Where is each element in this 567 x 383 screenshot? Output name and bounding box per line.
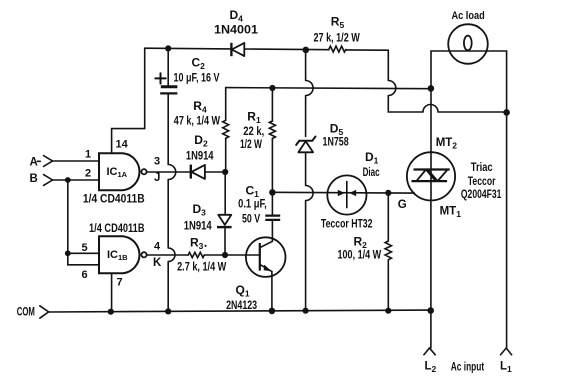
diode D4 bbox=[231, 43, 244, 56]
node A input arrow bbox=[44, 156, 53, 167]
label 0.1 uF, bbox=[238, 199, 267, 211]
label 1/4 CD4011B upper bbox=[83, 193, 145, 205]
svg-text:C1: C1 bbox=[246, 184, 260, 200]
label 27 k, 1/2 W bbox=[314, 32, 360, 44]
svg-text:5: 5 bbox=[82, 242, 88, 254]
label 47 k, 1/4 W bbox=[174, 116, 220, 128]
diode D3 bbox=[217, 215, 232, 227]
svg-text:J: J bbox=[154, 172, 160, 184]
resistor R5 bbox=[329, 46, 346, 52]
svg-text:IC1A: IC1A bbox=[107, 166, 128, 179]
svg-text:27 k, 1/2 W: 27 k, 1/2 W bbox=[314, 32, 360, 44]
wire input B to pin 2 bbox=[53, 179, 100, 181]
svg-text:4: 4 bbox=[154, 241, 161, 253]
label 100, 1/4 W bbox=[338, 249, 382, 261]
svg-text:100, 1/4 W: 100, 1/4 W bbox=[338, 249, 382, 261]
svg-text:MT1: MT1 bbox=[440, 205, 462, 219]
svg-text:2N4123: 2N4123 bbox=[226, 300, 257, 312]
label 2N4123 bbox=[226, 300, 257, 312]
wire lamp left lead down to triac MT2 bbox=[430, 51, 432, 200]
wire from R5 down and right to L1 line bbox=[388, 50, 506, 112]
label 10 uF, 16 V bbox=[174, 73, 220, 85]
label B bbox=[30, 173, 38, 185]
label pin 5 bbox=[82, 242, 88, 254]
svg-text:R1: R1 bbox=[247, 110, 261, 126]
svg-text:Ac input: Ac input bbox=[451, 361, 484, 373]
wire Q1 emitter drop bbox=[271, 272, 273, 311]
wire lamp horizontal lead bbox=[431, 50, 507, 52]
wire D3 leads bbox=[224, 172, 226, 255]
resistor R4 bbox=[223, 120, 229, 138]
svg-text:1/4 CD4011B: 1/4 CD4011B bbox=[83, 193, 145, 205]
label Q2004F31 bbox=[461, 189, 502, 201]
wire IC1A output J line bbox=[147, 171, 191, 173]
wire zener column with hops bbox=[306, 50, 314, 311]
svg-text:B: B bbox=[30, 173, 38, 185]
label R5 bbox=[331, 15, 345, 31]
svg-text:L2: L2 bbox=[425, 361, 437, 375]
svg-text:3: 3 bbox=[154, 155, 160, 167]
wire D2 cathode to node J junction bbox=[205, 171, 225, 173]
svg-text:R3: R3 bbox=[190, 236, 204, 252]
wire R2 column bbox=[387, 193, 389, 311]
svg-text:C2: C2 bbox=[192, 56, 206, 72]
label 1/2 W bbox=[240, 139, 262, 151]
svg-text:D2: D2 bbox=[194, 133, 208, 149]
node K / D3 junction bbox=[222, 252, 228, 258]
label L2 bbox=[425, 361, 437, 375]
wire pin 14 path bbox=[112, 48, 145, 153]
node COM input arrow bbox=[40, 306, 49, 318]
svg-text:Diac: Diac bbox=[363, 167, 380, 179]
node D4/D5/R5 junction bbox=[303, 47, 310, 54]
svg-text:IC1B: IC1B bbox=[107, 249, 128, 262]
wire input A to pin 1 bbox=[53, 160, 100, 162]
node L2 terminal arrow bbox=[424, 348, 435, 355]
svg-text:D5: D5 bbox=[330, 121, 344, 137]
svg-text:1/4 CD4011B: 1/4 CD4011B bbox=[89, 223, 145, 235]
label 1N758 bbox=[323, 137, 350, 149]
wire R4 column bbox=[225, 88, 227, 172]
diode D2 bbox=[191, 165, 205, 179]
label 1N4001 bbox=[214, 22, 258, 36]
svg-text:R2: R2 bbox=[354, 235, 368, 251]
label pin 7 bbox=[117, 277, 123, 289]
resistor R2 bbox=[385, 241, 391, 260]
node B input arrow bbox=[44, 175, 53, 186]
label COM bbox=[17, 307, 35, 319]
zener diode D5 bbox=[296, 137, 315, 153]
label R4 bbox=[193, 99, 207, 115]
wire C1 to Q1 collector bbox=[271, 193, 273, 242]
transistor Q1 bbox=[246, 237, 286, 277]
svg-text:14: 14 bbox=[116, 139, 129, 151]
label pin 6 bbox=[82, 269, 88, 281]
wire COM bottom rail bbox=[48, 310, 430, 312]
svg-text:R4: R4 bbox=[193, 99, 207, 115]
node C2 ground junction bbox=[165, 308, 171, 314]
node mid line / MT2 junction bbox=[428, 85, 435, 92]
svg-text:1: 1 bbox=[85, 149, 91, 161]
wire R1 column bbox=[271, 88, 273, 193]
label C1 bbox=[246, 184, 260, 200]
svg-text:D1: D1 bbox=[365, 150, 379, 166]
svg-text:1/2 W: 1/2 W bbox=[240, 139, 262, 151]
node zener ground junction bbox=[303, 308, 309, 314]
label pin 14 bbox=[116, 139, 129, 151]
svg-text:R5: R5 bbox=[331, 15, 345, 31]
wire B drop to IC1B inputs bbox=[68, 180, 99, 265]
triac U3 bbox=[407, 152, 455, 200]
node emitter ground junction bbox=[269, 308, 276, 315]
svg-text:1N4001: 1N4001 bbox=[214, 22, 258, 36]
svg-text:1N914: 1N914 bbox=[184, 221, 212, 233]
label pin 1 bbox=[85, 149, 91, 161]
label Diac bbox=[363, 167, 380, 179]
resistor R1 bbox=[269, 121, 275, 138]
svg-text:1N914: 1N914 bbox=[186, 151, 214, 163]
node B input junction bbox=[65, 177, 71, 183]
wire diac/gate horizontal line bbox=[272, 191, 414, 194]
label pin 2 bbox=[85, 168, 91, 180]
node COM / L2 junction bbox=[427, 307, 434, 314]
diac D1 bbox=[327, 175, 366, 214]
node L1 terminal arrow bbox=[501, 348, 512, 355]
node J junction bbox=[222, 169, 228, 175]
svg-text:Q2004F31: Q2004F31 bbox=[461, 189, 502, 201]
svg-text:50 V: 50 V bbox=[242, 214, 260, 226]
label pin 3 bbox=[154, 155, 160, 167]
label MT2 bbox=[436, 137, 458, 151]
label 1N914 (D2) bbox=[186, 151, 214, 163]
capacitor C1 bbox=[265, 216, 280, 220]
op-amp U1: NAND gate IC1A bbox=[99, 153, 147, 190]
svg-text:7: 7 bbox=[117, 277, 123, 289]
svg-text:22 k,: 22 k, bbox=[243, 126, 264, 138]
wire R3 to Q1 base bbox=[204, 254, 259, 256]
node C1 / diac line junction bbox=[269, 189, 276, 196]
label 2.7 k, 1/4 W bbox=[177, 262, 226, 274]
label D1 bbox=[365, 150, 379, 166]
svg-text:D4: D4 bbox=[230, 8, 244, 24]
label 1/4 CD4011B lower bbox=[89, 223, 145, 235]
svg-text:47 k, 1/4 W: 47 k, 1/4 W bbox=[174, 116, 220, 128]
label IC1B bbox=[107, 249, 128, 262]
label G bbox=[398, 199, 407, 211]
node R1 top junction bbox=[269, 85, 275, 91]
label R3 bbox=[190, 236, 204, 252]
svg-text:Ac load: Ac load bbox=[452, 10, 485, 22]
wire pin 7 drop bbox=[111, 274, 113, 312]
node gate / R2 junction bbox=[385, 190, 391, 196]
label Ac load bbox=[452, 10, 485, 22]
wire IC1B output K line to R3 bbox=[147, 254, 189, 256]
label node J bbox=[154, 172, 160, 184]
svg-text:K: K bbox=[153, 257, 162, 269]
svg-text:10 μF, 16 V: 10 μF, 16 V bbox=[174, 73, 220, 85]
svg-text:6: 6 bbox=[82, 269, 88, 281]
capacitor C2 bbox=[155, 73, 177, 93]
svg-text:Teccor HT32: Teccor HT32 bbox=[321, 218, 373, 230]
label D5 bbox=[330, 121, 344, 137]
wire A tiny dash bbox=[37, 160, 40, 162]
svg-text:Triac: Triac bbox=[471, 162, 493, 174]
label MT1 bbox=[440, 205, 462, 219]
label Ac input bbox=[451, 361, 484, 373]
label 50 V bbox=[242, 214, 260, 226]
wire top supply rail bbox=[145, 48, 389, 50]
label node K bbox=[153, 257, 162, 269]
label Teccor bbox=[468, 176, 496, 188]
label C2 bbox=[192, 56, 206, 72]
label 22 k, bbox=[243, 126, 264, 138]
node pin7 / COM junction bbox=[108, 309, 114, 315]
wire mid horizontal line y=88 bbox=[226, 88, 431, 89]
wire L1 right vertical line bbox=[506, 51, 508, 348]
svg-text:COM: COM bbox=[17, 307, 35, 319]
svg-text:Q1: Q1 bbox=[236, 283, 250, 299]
label R3 period bbox=[204, 245, 206, 247]
node R2 ground junction bbox=[385, 308, 391, 314]
svg-text:2: 2 bbox=[85, 168, 91, 180]
node B drop / pin5 junction bbox=[65, 250, 71, 256]
label Q1 bbox=[236, 283, 250, 299]
svg-text:D3: D3 bbox=[193, 202, 207, 218]
label D3 bbox=[193, 202, 207, 218]
label pin 4 bbox=[154, 241, 161, 253]
label A bbox=[30, 157, 38, 169]
resistor R3 bbox=[188, 252, 204, 257]
wire triac MT1 / L2 column bbox=[430, 200, 432, 348]
svg-text:0.1 μF,: 0.1 μF, bbox=[238, 199, 267, 211]
label Teccor HT32 bbox=[321, 218, 373, 230]
node R5 / L1 junction bbox=[503, 109, 510, 116]
lamp Ac load bbox=[448, 24, 488, 64]
op-amp U2: NAND gate IC1B bbox=[99, 236, 147, 273]
wire C2 ground column with hops bbox=[168, 48, 176, 311]
label L1 bbox=[500, 361, 512, 375]
svg-text:Teccor: Teccor bbox=[468, 176, 496, 188]
label 1N914 (D3) bbox=[184, 221, 212, 233]
label R2 bbox=[354, 235, 368, 251]
svg-text:MT2: MT2 bbox=[436, 137, 458, 151]
label D4 bbox=[230, 8, 244, 24]
svg-text:G: G bbox=[398, 199, 407, 211]
label IC1A bbox=[107, 166, 128, 179]
svg-text:1N758: 1N758 bbox=[323, 137, 350, 149]
label D2 bbox=[194, 133, 208, 149]
label R1 bbox=[247, 110, 261, 126]
node C2 top junction bbox=[165, 45, 171, 51]
svg-text:2.7 k, 1/4 W: 2.7 k, 1/4 W bbox=[177, 262, 226, 274]
svg-text:A: A bbox=[30, 157, 38, 169]
label Triac bbox=[471, 162, 493, 174]
svg-text:L1: L1 bbox=[500, 361, 512, 375]
